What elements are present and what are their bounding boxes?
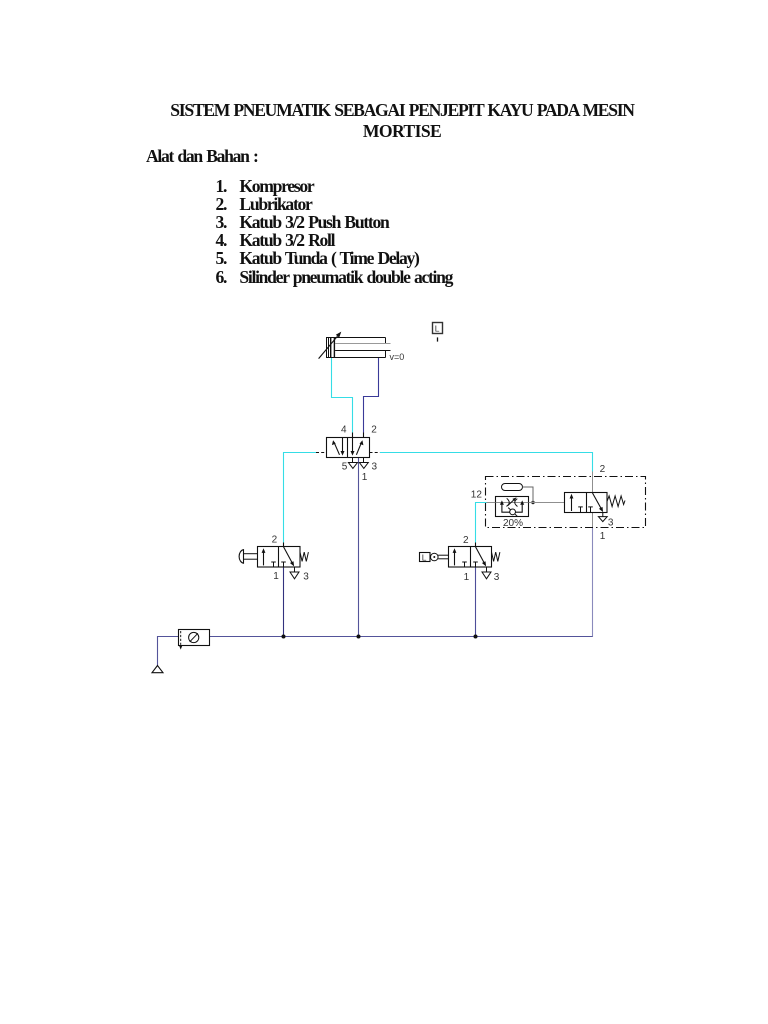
- list item 5: [216, 248, 227, 269]
- svg-text:5: 5: [342, 461, 348, 472]
- wire left pilot line to valve V1 port 2: [284, 453, 317, 543]
- wire gray segment into delay box port 2: [592, 472, 594, 494]
- wire delay valve port 1 down inside box: [592, 513, 594, 528]
- svg-text:v=0: v=0: [390, 352, 405, 362]
- time delay group box: [486, 477, 646, 528]
- wire delay valve port 1 down to bus: [592, 528, 594, 638]
- svg-text:1: 1: [362, 472, 368, 483]
- junction node reservoir tap: [531, 501, 534, 504]
- svg-text:3: 3: [303, 572, 309, 583]
- throttle check valve unit: [496, 497, 529, 517]
- wire stub valve port 2: [363, 433, 365, 439]
- list item 3: [216, 212, 227, 233]
- wire source to air unit: [158, 637, 179, 666]
- svg-text:3: 3: [494, 572, 500, 583]
- compressed air source: [152, 666, 163, 673]
- wire cylinder right port to valve port 2: [364, 358, 379, 433]
- wire stub valve port 4: [352, 433, 354, 439]
- cylinder A double acting: [319, 332, 391, 359]
- valve V2 3/2 roller: [420, 547, 500, 579]
- wire V2 port 2 to delay box port 12: [476, 503, 487, 543]
- wire reservoir tap: [523, 487, 534, 503]
- wire gray segment to throttle: [487, 502, 496, 504]
- wire right pilot line to time delay valve port 2: [380, 453, 593, 472]
- svg-text:1: 1: [600, 531, 606, 542]
- junction node V2: [474, 635, 478, 639]
- lubricator unit: [179, 630, 210, 650]
- heading Alat dan Bahan: [146, 146, 258, 167]
- svg-text:2: 2: [371, 424, 377, 435]
- svg-text:20%: 20%: [503, 518, 523, 529]
- wire supply bus: [210, 636, 593, 638]
- list item 1: [216, 176, 227, 197]
- svg-text:4: 4: [341, 424, 347, 435]
- svg-text:1: 1: [273, 571, 279, 582]
- list item 6: [216, 267, 227, 288]
- wire cylinder left port to valve port 4: [332, 358, 353, 433]
- svg-text:L: L: [422, 552, 427, 562]
- title: [100, 100, 704, 144]
- svg-text:3: 3: [608, 518, 614, 529]
- list item 2: [216, 194, 227, 215]
- wire V1 port 1 down to bus: [283, 567, 285, 637]
- wire 5/2 port 1 down to bus: [358, 458, 360, 638]
- svg-text:L: L: [435, 324, 440, 334]
- distance rule marker L: [433, 323, 443, 342]
- wire V2 port 1 down to bus: [475, 567, 477, 637]
- list item 4: [216, 230, 227, 251]
- junction node 5/2: [357, 635, 361, 639]
- svg-text:1: 1: [464, 572, 470, 583]
- junction node V1: [282, 635, 286, 639]
- svg-text:12: 12: [471, 489, 483, 500]
- valve U1 5/2 impulse valve: [316, 438, 380, 469]
- svg-text:3: 3: [372, 461, 378, 472]
- svg-text:2: 2: [600, 464, 606, 475]
- svg-text:2: 2: [272, 535, 278, 546]
- wire stub V2 port 2: [475, 543, 477, 548]
- valve V3 3/2 pilot in delay box: [565, 493, 626, 522]
- svg-text:2: 2: [463, 535, 469, 546]
- wire stub V1 port 2: [283, 543, 285, 548]
- valve V1 3/2 push button: [239, 547, 308, 579]
- air reservoir: [502, 484, 523, 491]
- wire throttle to pilot valve: [529, 502, 565, 504]
